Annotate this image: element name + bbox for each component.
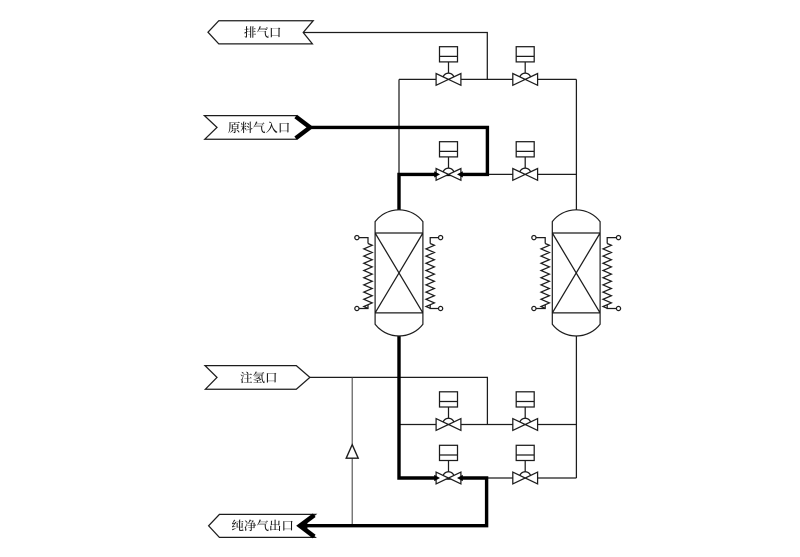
flow arrowheads at valve V7 bbox=[434, 475, 440, 481]
heater element A-left with terminals bbox=[364, 244, 372, 309]
adsorber vessel A (left column) bbox=[375, 210, 423, 336]
wire left riser (row 1 to row 2) bbox=[398, 79, 400, 174]
wire feed thick line (inlet banner to riser, down to row 2, left, down into adsorber A top) bbox=[307, 127, 487, 210]
valve V5 (row 3 left, with actuator) bbox=[440, 392, 458, 407]
port banner: hydrogen injection (right-pointing ribbon) bbox=[205, 366, 310, 390]
label text 注氢口 bbox=[240, 372, 252, 384]
wire row 3 header bbox=[399, 424, 576, 426]
label text 原料气入口 bbox=[228, 122, 240, 133]
valve V3 (row 2 left feed valve, with actuator) bbox=[440, 142, 458, 157]
port banner: pure gas outlet (left-pointing ribbon) bbox=[209, 514, 316, 537]
valve V7 (row 4 left product valve, with actuator) bbox=[440, 445, 458, 460]
valve V8 (row 4 right, with actuator) bbox=[516, 445, 534, 460]
wire bypass branch (injection line down to product line) bbox=[351, 377, 353, 525]
wire product thick line (adsorber A bottom down, right, down, left to outlet banner) bbox=[305, 335, 487, 525]
flow arrow on bypass branch (points up) bbox=[346, 445, 358, 459]
wire top valve row 1 header bbox=[399, 78, 576, 80]
wire exhaust header (banner to drop into top valve row) bbox=[303, 33, 487, 80]
thick arrowhead chevron on pure gas outlet banner bbox=[300, 515, 314, 536]
wire injection line (banner to drop into row 3) bbox=[310, 377, 488, 424]
adsorber vessel B (right column) bbox=[552, 210, 600, 336]
heater element B-right with terminals bbox=[603, 244, 611, 309]
wire right downcomer (adsorber B bottom through row 3 to row 4) bbox=[575, 335, 577, 478]
wire row 2 thin segment (junction to right riser) bbox=[487, 173, 576, 175]
solid arrowhead at end of product line bbox=[300, 521, 308, 530]
heater element B-left with terminals bbox=[541, 244, 549, 309]
thick arrowhead chevron on raw gas inlet banner bbox=[296, 117, 310, 139]
wire right riser (row 1 down to adsorber B top) bbox=[575, 79, 577, 210]
label text 纯净气出口 bbox=[232, 520, 244, 531]
flow arrowheads at valve V3 bbox=[434, 171, 440, 177]
port banner: exhaust outlet (left-pointing ribbon) bbox=[208, 21, 313, 44]
heater element A-right with terminals bbox=[426, 244, 434, 309]
port banner: raw gas inlet (right-pointing ribbon) bbox=[204, 116, 310, 140]
valve V1 (row 1 left, with actuator) bbox=[440, 47, 458, 62]
label text 排气口 bbox=[244, 26, 256, 38]
valve V2 (row 1 right, with actuator) bbox=[516, 47, 534, 62]
valve V6 (row 3 right, with actuator) bbox=[516, 392, 534, 407]
valve V4 (row 2 right, with actuator) bbox=[516, 142, 534, 157]
wire row 4 thin segment (thick corner to right downcomer) bbox=[487, 477, 577, 479]
